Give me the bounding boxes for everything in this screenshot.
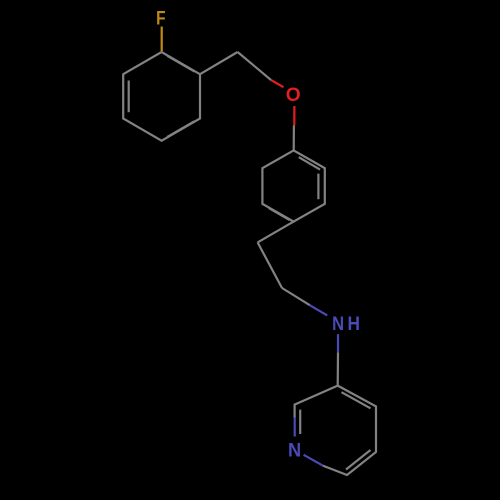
bond N1-C6 blue half	[304, 455, 323, 466]
atom label F	[156, 6, 166, 28]
ring B inner aromatic line bottom-left	[269, 208, 290, 220]
atom label O	[286, 84, 301, 106]
pyridine inner aromatic line C3-C4	[342, 392, 371, 408]
atom label N pyridine	[288, 440, 301, 462]
pyridine inner aromatic line N1-C2	[299, 410, 301, 434]
bond CH2-O red half	[271, 80, 284, 87]
bond ringA-CH2	[200, 52, 238, 74]
ring B inner aromatic line top-right	[299, 157, 320, 169]
bond C1-CH2a	[258, 242, 282, 288]
pyridine edge C3-C2 and C2-N1 gray part	[295, 386, 338, 418]
bond O-ringB red half	[293, 106, 295, 126]
bond ringB-C1	[258, 222, 294, 243]
svg-text:N: N	[332, 313, 344, 335]
svg-text:F: F	[156, 6, 166, 28]
bond N1-C2 blue half	[294, 418, 296, 437]
bond CH2a-NH gray half	[282, 288, 310, 305]
bond NH-C3 blue half	[337, 334, 339, 352]
bond O-ringB gray half	[293, 126, 295, 151]
ring B inner aromatic line right	[317, 174, 319, 200]
atom label H of NH	[347, 312, 359, 334]
svg-text:O: O	[286, 84, 301, 106]
bond F-C yellow	[161, 27, 163, 52]
bond CH2a-NH blue half	[310, 305, 327, 315]
pyridine edges C3-C4, C4-C5, C5-C6, C6 to blue	[323, 386, 376, 475]
bond CH2-O gray half	[238, 52, 271, 80]
svg-text:H: H	[347, 312, 359, 334]
ring A fluorophenyl	[123, 52, 200, 141]
atom label N of NH	[332, 313, 344, 335]
ring A inner aromatic line top-right	[167, 56, 194, 72]
svg-text:N: N	[288, 440, 301, 462]
ring B	[262, 150, 324, 221]
pyridine inner aromatic line C5-C6	[346, 450, 371, 470]
ring A inner aromatic line left	[128, 81, 130, 113]
wire: gray skeleton	[123, 52, 376, 475]
ring A inner aromatic line bottom-right	[167, 121, 194, 137]
bond NH-C3 gray half	[337, 352, 339, 385]
